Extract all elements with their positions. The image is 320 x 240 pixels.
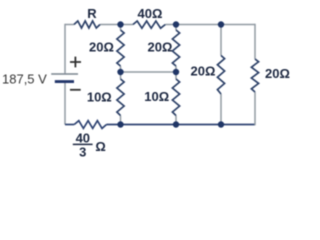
battery minus sign	[70, 89, 81, 91]
resistor 10ohm column1 bottom (vertical zigzag)	[117, 79, 124, 116]
label 40/3 fraction bar	[73, 143, 93, 145]
svg-text:20Ω: 20Ω	[191, 64, 216, 79]
wire left (battery down to bottom corner)	[64, 82, 66, 124]
resistor 40/3 ohm (horizontal zigzag, bottom)	[74, 121, 106, 129]
wire column4 stubs (right branch)	[254, 24, 256, 125]
svg-text:187,5 V: 187,5 V	[2, 72, 47, 87]
svg-text:20Ω: 20Ω	[89, 39, 114, 54]
node C (top, column3)	[218, 21, 224, 27]
wire bottom (40/3 resistor to bottom-right corner)	[107, 124, 256, 126]
resistor 10ohm column2 bottom (vertical zigzag)	[172, 79, 179, 116]
svg-text:20Ω: 20Ω	[265, 66, 290, 81]
battery V1 long plate	[51, 73, 78, 75]
resistor 20ohm column4 right (vertical zigzag)	[251, 59, 258, 92]
svg-text:Ω: Ω	[95, 139, 105, 154]
resistor 20ohm column3 (vertical zigzag)	[217, 56, 224, 95]
node D (middle left)	[117, 69, 123, 75]
node B (top, after 40ohm)	[173, 21, 179, 27]
resistor 40ohm (horizontal zigzag)	[133, 21, 165, 28]
svg-text:40Ω: 40Ω	[138, 6, 163, 21]
resistor 20ohm column1 top (vertical zigzag)	[117, 30, 124, 66]
wire middle (node D to node E)	[121, 71, 177, 73]
resistor R (horizontal zigzag)	[74, 21, 100, 28]
svg-text:20Ω: 20Ω	[148, 39, 173, 54]
svg-text:3: 3	[79, 145, 86, 160]
svg-text:R: R	[87, 6, 97, 21]
svg-text:10Ω: 10Ω	[87, 89, 112, 104]
wire column3 stubs	[220, 25, 222, 125]
wire top (left corner to R)	[65, 24, 74, 26]
wire column1 stubs	[120, 25, 122, 125]
battery plus sign	[70, 57, 81, 68]
battery V1 short thick plate	[55, 80, 74, 83]
wire top (R to 40ohm, through node A)	[100, 24, 133, 26]
node E (middle right)	[173, 69, 179, 75]
node F (bottom, column1)	[117, 121, 123, 127]
wire top (40ohm to top-right corner)	[165, 24, 255, 26]
node A (top, after R)	[117, 21, 123, 27]
wire bottom (battery corner to 40/3 resistor)	[65, 124, 74, 126]
resistor 20ohm column2 top (vertical zigzag)	[172, 30, 179, 66]
node H (bottom, column3)	[218, 121, 224, 127]
svg-text:10Ω: 10Ω	[144, 89, 169, 104]
wire column2 stubs	[175, 25, 177, 125]
node G (bottom, column2)	[173, 121, 179, 127]
svg-text:40: 40	[76, 130, 90, 145]
wire left (top corner down to battery)	[64, 24, 66, 74]
